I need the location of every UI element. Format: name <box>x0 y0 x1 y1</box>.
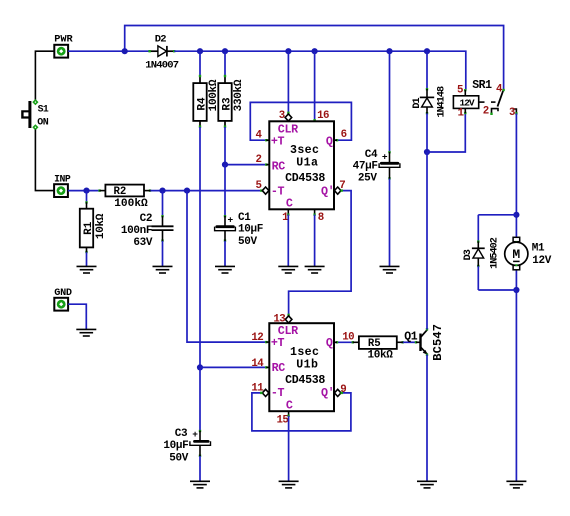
pin 3 diamond U1a <box>285 114 292 121</box>
svg-text:CD4538: CD4538 <box>285 172 325 185</box>
wire C2 to ground <box>162 241 164 266</box>
wire rail to C4 <box>389 51 391 152</box>
pin numbers U1a <box>255 110 346 224</box>
wire collector to coil node <box>426 152 428 329</box>
ground of Q1 emitter <box>417 481 437 488</box>
svg-text:5: 5 <box>457 85 463 97</box>
wire rail to R4 <box>199 51 201 76</box>
resistor R3 <box>218 75 245 128</box>
svg-text:10kΩ: 10kΩ <box>95 213 107 239</box>
capacitor C2 <box>121 213 174 249</box>
svg-text:2: 2 <box>483 106 489 118</box>
wire rail to pin 16 <box>314 51 316 121</box>
wire R4 to RC14 node <box>199 127 201 367</box>
wire +T12 branch <box>187 191 266 343</box>
svg-text:ON: ON <box>37 117 49 128</box>
svg-text:U1b: U1b <box>296 359 318 372</box>
wire C4 to ground <box>389 179 391 267</box>
wire top link to relay pin4 <box>125 26 504 90</box>
capacitor C3 <box>163 428 210 465</box>
svg-text:47µF: 47µF <box>353 160 378 172</box>
svg-text:-T: -T <box>271 184 285 198</box>
svg-text:100kΩ: 100kΩ <box>114 198 148 210</box>
svg-text:R1: R1 <box>83 221 95 235</box>
ground of pin15 <box>279 481 299 488</box>
svg-text:100nF: 100nF <box>121 225 152 237</box>
svg-text:330kΩ: 330kΩ <box>233 79 245 111</box>
svg-text:INP: INP <box>54 173 71 184</box>
svg-text:10µF: 10µF <box>238 223 263 235</box>
ground of GND terminal <box>76 329 96 336</box>
wire INP to R2 <box>68 190 100 192</box>
wire Q10 to R5 <box>334 341 353 343</box>
junction RC14 node <box>197 364 203 370</box>
junction rail at PWR branch <box>122 48 128 54</box>
svg-text:M: M <box>512 247 520 262</box>
pin 11 diamond U1b <box>262 389 269 396</box>
ground of R1 <box>77 266 97 273</box>
svg-text:PWR: PWR <box>54 34 73 46</box>
svg-text:+: + <box>192 429 198 440</box>
svg-text:R3: R3 <box>221 97 233 111</box>
pushbutton S1 <box>21 99 49 130</box>
svg-text:C2: C2 <box>140 213 153 225</box>
svg-text:12: 12 <box>251 332 263 344</box>
svg-text:3: 3 <box>509 107 515 119</box>
wire R5 to Q1 base <box>403 341 416 343</box>
junction INP at +T12 branch <box>184 188 190 194</box>
svg-text:3sec: 3sec <box>290 144 319 157</box>
svg-text:CD4538: CD4538 <box>285 374 325 387</box>
pin numbers U1b <box>251 314 354 427</box>
resistor R2 <box>98 185 151 211</box>
wire pin15 to ground <box>287 411 289 481</box>
wire PWR to S1 <box>35 51 54 100</box>
motor M1 <box>505 237 552 269</box>
svg-text:1sec: 1sec <box>290 346 319 359</box>
junction rail at C4 <box>386 48 392 54</box>
svg-text:C: C <box>286 399 293 413</box>
junction rail at pin16 <box>312 48 318 54</box>
svg-text:2: 2 <box>255 154 261 166</box>
wire D3 branch lower <box>477 266 479 290</box>
wire GND to ground <box>68 304 86 329</box>
wire RC2 node to C1 <box>224 165 226 217</box>
wire rail to D1 <box>426 51 428 89</box>
svg-text:BC547: BC547 <box>431 324 445 361</box>
pin 5 diamond U1a <box>262 187 269 194</box>
svg-text:SR1: SR1 <box>472 79 492 92</box>
svg-text:1N5402: 1N5402 <box>490 237 501 269</box>
terminal PWR <box>54 34 73 58</box>
svg-text:Q1: Q1 <box>404 330 418 343</box>
capacitor C4 <box>353 149 400 185</box>
wire R1 to ground <box>86 252 88 266</box>
wire RC2 node to pin 2 <box>225 164 266 166</box>
wire R3 to RC2 node <box>224 127 226 165</box>
junction INP at C2 <box>159 188 165 194</box>
wire RC14 node to pin 14 <box>200 366 266 368</box>
ground of relay line <box>506 481 526 488</box>
resistor R5 <box>352 336 404 361</box>
transistor Q1 <box>404 324 445 361</box>
wire motor top link <box>478 214 516 216</box>
relay SR1 <box>453 79 517 120</box>
svg-text:10µF: 10µF <box>163 440 188 452</box>
ground of C1 <box>215 266 235 273</box>
wire R1 drop <box>86 191 88 203</box>
junction rail at R3 <box>222 48 228 54</box>
wire C3 to ground <box>199 456 201 481</box>
svg-text:RC: RC <box>272 159 286 173</box>
wire R2 to -T5 <box>150 190 262 192</box>
wire -T11 C15 Q'9 loop <box>252 392 351 431</box>
wire RC14 node to C3 <box>199 367 201 431</box>
terminal INP <box>54 173 71 197</box>
svg-text:15: 15 <box>277 415 289 427</box>
junction motor bottom <box>513 287 519 293</box>
junction rail at R4 <box>197 48 203 54</box>
diode D1 <box>412 86 447 118</box>
svg-text:13: 13 <box>273 314 285 326</box>
svg-text:Q': Q' <box>321 184 334 198</box>
svg-text:1N4148: 1N4148 <box>436 86 447 118</box>
svg-text:50V: 50V <box>169 453 189 465</box>
wire motor bottom link <box>478 289 516 291</box>
svg-text:3: 3 <box>279 110 285 122</box>
op IC U1b CD4538 <box>269 323 334 412</box>
svg-text:5: 5 <box>255 180 261 192</box>
resistor R4 <box>193 75 220 128</box>
svg-text:8: 8 <box>318 212 324 224</box>
svg-text:Q': Q' <box>321 386 334 400</box>
wire emitter to ground <box>426 355 428 482</box>
wire relay pin3 down <box>515 113 517 481</box>
svg-text:1N4007: 1N4007 <box>145 59 179 71</box>
svg-text:D3: D3 <box>463 249 474 260</box>
terminal GND <box>54 288 72 310</box>
wire pin1 to ground <box>287 209 289 266</box>
wire VCC rail left <box>68 50 150 52</box>
svg-text:+: + <box>382 151 388 162</box>
wire Q'7 to CLR13 <box>287 189 351 316</box>
svg-text:63V: 63V <box>133 237 153 249</box>
ground of pin8 <box>305 266 325 273</box>
svg-text:M1: M1 <box>532 242 545 254</box>
ground of C4 <box>380 266 400 273</box>
svg-text:RC: RC <box>272 361 286 375</box>
junction coil node <box>424 149 430 155</box>
svg-text:C1: C1 <box>238 212 251 224</box>
junction RC2 node <box>222 162 228 168</box>
op IC U1a CD4538 <box>269 121 334 210</box>
wire rail to pin CLR3 <box>287 51 289 113</box>
wire C1 to ground <box>224 241 226 266</box>
ground of C2 <box>153 266 173 273</box>
svg-text:U1a: U1a <box>296 157 318 170</box>
wire D1 to coil node <box>426 113 428 152</box>
wire S1 to INP <box>35 130 54 191</box>
resistor R1 <box>80 201 107 253</box>
svg-text:R4: R4 <box>196 97 208 111</box>
svg-text:D1: D1 <box>412 98 423 109</box>
junction rail at CLR3 <box>285 48 291 54</box>
svg-text:14: 14 <box>251 358 264 370</box>
svg-text:+T: +T <box>271 336 285 350</box>
wire coil node to relay pin1 <box>427 113 465 152</box>
junction rail at D1 <box>424 48 430 54</box>
wire C2 drop <box>162 191 164 217</box>
junction INP at R1 <box>83 188 89 194</box>
svg-text:+T: +T <box>271 134 285 148</box>
svg-text:R5: R5 <box>368 338 381 350</box>
wire pin8 to ground <box>313 209 315 266</box>
svg-text:C3: C3 <box>175 428 188 440</box>
wire rail to R3 <box>224 51 226 76</box>
svg-text:Q: Q <box>326 336 333 350</box>
pin 7 diamond U1a <box>334 187 341 194</box>
svg-text:S1: S1 <box>38 104 49 115</box>
capacitor C1 <box>215 212 263 248</box>
svg-text:+: + <box>227 214 233 225</box>
svg-text:50V: 50V <box>238 236 258 248</box>
svg-text:C: C <box>286 197 293 211</box>
wire VCC rail right <box>174 51 466 90</box>
junction motor top <box>513 212 519 218</box>
svg-text:R2: R2 <box>114 186 127 198</box>
svg-text:16: 16 <box>317 110 329 122</box>
svg-text:D2: D2 <box>155 34 167 46</box>
svg-text:C4: C4 <box>365 149 378 161</box>
pin 13 diamond U1b <box>285 316 292 323</box>
svg-text:25V: 25V <box>358 173 378 185</box>
svg-text:GND: GND <box>54 288 72 299</box>
pin 9 diamond U1b <box>334 389 341 396</box>
svg-text:10kΩ: 10kΩ <box>367 350 393 362</box>
diode D3 <box>463 237 500 269</box>
svg-text:Q: Q <box>326 134 333 148</box>
ground of pin1 <box>278 266 298 273</box>
svg-text:12V: 12V <box>532 255 552 267</box>
wire Q6 to +T4 loop <box>250 102 351 141</box>
diode D2 <box>145 34 179 72</box>
ground of C3 <box>190 481 210 488</box>
wire D3 branch upper <box>477 215 479 242</box>
svg-text:-T: -T <box>271 386 285 400</box>
